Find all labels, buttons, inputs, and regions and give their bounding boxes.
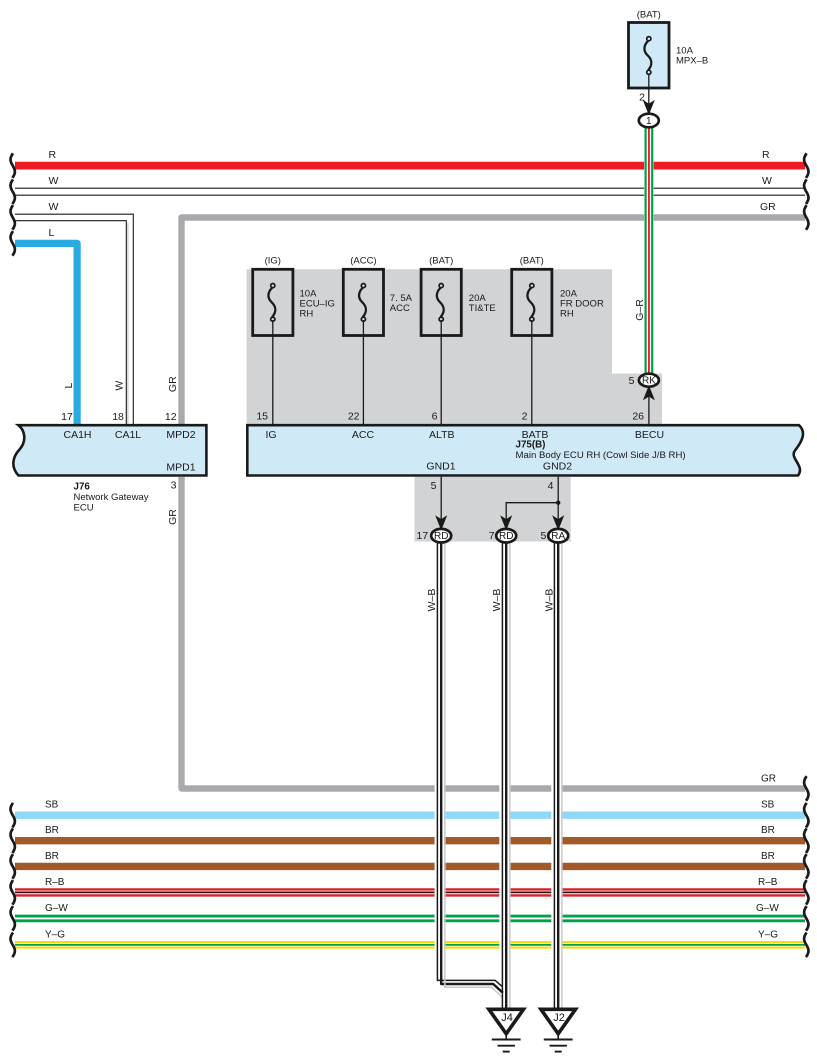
svg-text:ACC: ACC (352, 429, 375, 441)
svg-text:BECU: BECU (635, 429, 664, 441)
svg-text:G–R: G–R (634, 299, 646, 321)
svg-text:TI&TE: TI&TE (469, 303, 496, 314)
svg-text:R: R (762, 149, 770, 161)
svg-text:Y–G: Y–G (45, 929, 65, 940)
svg-text:W: W (762, 175, 772, 187)
svg-text:IG: IG (265, 429, 276, 441)
svg-text:GR: GR (167, 376, 179, 392)
svg-text:12: 12 (165, 411, 177, 423)
svg-text:RD: RD (434, 531, 448, 542)
svg-text:W–B: W–B (544, 589, 556, 612)
svg-text:RK: RK (642, 376, 656, 387)
svg-text:G–W: G–W (756, 903, 779, 914)
svg-text:15: 15 (256, 411, 268, 423)
svg-text:ALTB: ALTB (429, 429, 454, 441)
svg-text:MPD2: MPD2 (166, 429, 195, 441)
svg-text:22: 22 (348, 411, 360, 423)
svg-text:3: 3 (171, 480, 177, 492)
svg-text:GR: GR (167, 509, 179, 525)
svg-text:17: 17 (61, 411, 73, 423)
svg-text:MPX–B: MPX–B (676, 56, 708, 67)
svg-text:2: 2 (522, 411, 528, 423)
svg-text:5: 5 (629, 375, 635, 387)
svg-text:GR: GR (761, 774, 776, 785)
svg-text:W: W (49, 175, 59, 187)
svg-text:R–B: R–B (45, 877, 65, 888)
svg-text:J75(B): J75(B) (516, 440, 546, 451)
svg-text:J4: J4 (501, 1012, 513, 1024)
svg-text:(ACC): (ACC) (350, 256, 376, 267)
svg-text:(BAT): (BAT) (520, 256, 544, 267)
svg-text:Main Body ECU RH (Cowl Side J/: Main Body ECU RH (Cowl Side J/B RH) (516, 450, 686, 461)
svg-text:BR: BR (761, 851, 775, 862)
svg-text:R–B: R–B (758, 877, 778, 888)
svg-text:RH: RH (300, 309, 314, 320)
svg-text:MPD1: MPD1 (166, 462, 195, 474)
svg-text:J76: J76 (74, 482, 91, 493)
svg-text:4: 4 (548, 480, 554, 492)
svg-text:5: 5 (431, 480, 437, 492)
svg-text:(BAT): (BAT) (429, 256, 453, 267)
svg-text:BR: BR (761, 825, 775, 836)
svg-text:BR: BR (45, 825, 59, 836)
svg-text:G–W: G–W (45, 903, 68, 914)
svg-text:CA1H: CA1H (63, 429, 91, 441)
svg-text:5: 5 (541, 530, 547, 542)
svg-text:17: 17 (417, 530, 429, 542)
svg-text:26: 26 (632, 410, 644, 422)
svg-text:J2: J2 (553, 1012, 565, 1024)
svg-text:1: 1 (646, 116, 652, 127)
svg-text:GND2: GND2 (543, 461, 572, 473)
svg-text:ACC: ACC (390, 303, 410, 314)
svg-text:L: L (63, 383, 75, 389)
svg-text:(BAT): (BAT) (637, 10, 661, 21)
svg-text:ECU: ECU (74, 502, 94, 513)
svg-text:SB: SB (761, 800, 775, 811)
svg-text:W: W (49, 201, 59, 213)
svg-text:W–B: W–B (426, 589, 438, 612)
svg-text:6: 6 (432, 411, 438, 423)
svg-text:7: 7 (489, 530, 495, 542)
svg-text:Y–G: Y–G (758, 929, 778, 940)
svg-text:L: L (49, 227, 55, 239)
svg-text:RH: RH (560, 309, 574, 320)
svg-text:BR: BR (45, 851, 59, 862)
svg-text:W–B: W–B (491, 589, 503, 612)
svg-text:W: W (114, 381, 126, 391)
svg-text:GR: GR (760, 201, 776, 213)
svg-text:RA: RA (551, 531, 565, 542)
svg-text:RD: RD (499, 531, 513, 542)
svg-text:(IG): (IG) (265, 256, 281, 267)
svg-text:SB: SB (45, 800, 59, 811)
svg-text:2: 2 (639, 92, 645, 104)
svg-text:GND1: GND1 (426, 461, 455, 473)
svg-text:18: 18 (112, 411, 124, 423)
svg-text:CA1L: CA1L (115, 429, 141, 441)
svg-text:R: R (49, 149, 57, 161)
